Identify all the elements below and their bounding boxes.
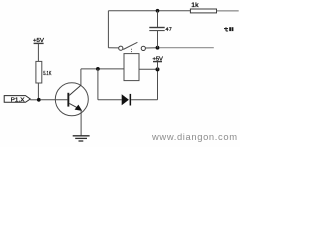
wire: diode cathode lead [131, 99, 157, 101]
relay coil K1 (box) [124, 54, 139, 81]
wire: switch right terminal to bottom node [145, 47, 157, 49]
junction dot bottom cap node [156, 46, 160, 50]
junction dot collector/diode node [96, 67, 100, 71]
wire: collector up [80, 69, 82, 85]
wire: down from collector node to diode row [97, 69, 99, 100]
junction dot at base node [37, 98, 41, 102]
power +5V symbol (left, above base resistor) [33, 38, 44, 44]
label: load text (CJK) right side [224, 27, 233, 31]
junction dot +5V node [156, 67, 160, 71]
dotted mechanical link switch-coil [131, 49, 133, 54]
wire: emitter down to ground [80, 110, 82, 136]
svg-text:+5V: +5V [152, 57, 163, 63]
watermark www.diangon.com [151, 131, 237, 142]
diode D1 (flyback) [122, 94, 131, 106]
wire: base node to transistor base [41, 99, 68, 101]
resistor 5.1K (vertical box) [36, 61, 52, 83]
resistor 1k (horizontal box, top right) [190, 3, 216, 13]
svg-text:www.diangon.com: www.diangon.com [151, 131, 237, 142]
port tag P1.X [4, 96, 30, 104]
wire: left vertical to switch left terminal [108, 47, 118, 49]
transistor Q1 (NPN) [55, 83, 88, 116]
wire: bottom output lead (gray) [159, 47, 213, 49]
wire: capacitor top stem [157, 11, 159, 27]
wire: top rail [108, 10, 190, 12]
relay contact switch: blade [123, 42, 137, 49]
wire: resistor right lead to edge [217, 10, 239, 12]
wire: up from diode row to +5V node [157, 70, 159, 100]
wire: +5V bar down to resistor top [37, 43, 39, 61]
wire: capacitor bottom stem [157, 31, 159, 48]
wire: resistor bottom to base node [37, 83, 39, 100]
relay contact switch: left terminal circle [119, 46, 123, 50]
wire: coil right to +5V node [139, 68, 158, 70]
power +5V symbol (right, above coil node) [152, 57, 163, 70]
ground symbol [73, 136, 90, 141]
junction dot top cap node [156, 9, 160, 13]
relay contact switch: right terminal circle [141, 46, 145, 50]
wire: left loop vertical [107, 11, 109, 48]
wire: P1.X tag to base node [30, 99, 39, 101]
svg-text:5.1K: 5.1K [43, 71, 51, 77]
svg-text:1k: 1k [191, 3, 199, 9]
capacitor C1 value 47 [149, 27, 171, 31]
wire: collector row to relay coil (left) [81, 68, 124, 70]
svg-text:P1.X: P1.X [11, 97, 25, 103]
wire: diode anode lead [98, 99, 122, 101]
